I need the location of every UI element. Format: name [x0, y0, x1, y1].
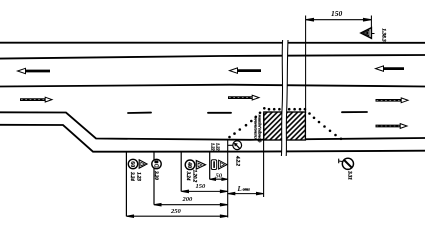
guiding cone dots: left taper [228, 107, 342, 140]
break band (white) [281, 40, 288, 156]
svg-text:150: 150 [331, 9, 343, 18]
svg-text:фонари,щиты: фонари,щиты [257, 115, 262, 143]
lane line upper [0, 55, 425, 59]
svg-text:3.24: 3.24 [129, 171, 134, 181]
dashed lane line in widened section [128, 112, 367, 113]
sign 1.38.3 (triangle, opposite direction) [361, 28, 375, 39]
svg-text:3.24: 3.24 [185, 171, 190, 181]
sign post group B (200 m) [153, 152, 155, 205]
svg-text:200: 200 [182, 196, 194, 203]
traffic arrow right outline B4 [376, 124, 408, 129]
sign post group D (50 m) [209, 152, 211, 180]
svg-text:1.38.3: 1.38.3 [380, 28, 386, 42]
svg-text:1.20.2: 1.20.2 [191, 170, 196, 183]
traffic arrow left solid A1 [18, 68, 51, 73]
hatched road-works closed area [264, 112, 306, 140]
svg-text:1.23: 1.23 [136, 172, 141, 181]
svg-text:4.2.2: 4.2.2 [235, 155, 240, 167]
sign 3.31 end of restrictions [339, 158, 354, 169]
svg-text:40: 40 [186, 162, 192, 168]
dimension 50 [210, 178, 228, 180]
svg-text:L: L [237, 185, 242, 193]
guiding cone dots: right taper [308, 112, 311, 115]
traffic arrow left solid A3 [376, 66, 405, 71]
dimension 150 top: extension line at works end [305, 16, 307, 114]
road top edge line [0, 42, 425, 44]
traffic arrow right outline B1 [20, 97, 52, 102]
guiding cone dots: along works top [268, 108, 271, 111]
main dimension extension vertical at taper start [227, 141, 229, 218]
svg-text:3.31: 3.31 [346, 170, 351, 180]
road bottom edge lower (shoulder, bends down) [0, 125, 425, 152]
extension vertical at works start [263, 113, 265, 197]
sign 1.20.2 triangle group C [196, 161, 205, 170]
traffic arrow right outline B3 [376, 98, 409, 103]
dimension 150 bottom [181, 190, 228, 192]
wavy break line right [286, 40, 288, 156]
svg-text:150: 150 [196, 183, 207, 190]
traffic arrow left solid A2 [230, 68, 262, 73]
sign 1.23 triangle group A [139, 160, 147, 168]
svg-text:3.20: 3.20 [153, 170, 158, 180]
road bottom edge upper (bends down at taper) [0, 112, 425, 140]
sign 4.2.2 (pass obstacle) circle at taper [228, 141, 242, 150]
svg-text:1.22: 1.22 [210, 143, 215, 151]
dimension 150 top: extension line at sign [370, 16, 372, 35]
sign 3.24 (40) group C [185, 160, 195, 170]
sign post group A (250 m): post / extension line [125, 152, 127, 217]
svg-text:60: 60 [129, 161, 135, 167]
svg-text:250: 250 [170, 208, 182, 215]
sign 3.20 (no overtaking) group B [152, 159, 161, 168]
sign post group C (150 m) [180, 152, 182, 192]
sign 1.20 outline triangle group D [219, 160, 227, 169]
wavy break line left [281, 40, 282, 156]
sign 3.24 (60) group A [128, 159, 137, 168]
sign rectangle (lane sign) group D [211, 160, 216, 170]
svg-text:50: 50 [216, 172, 223, 179]
svg-text:отг: отг [243, 187, 251, 192]
center line [0, 85, 425, 87]
svg-text:1.22: 1.22 [215, 143, 220, 151]
traffic arrow right outline B2 [228, 95, 259, 100]
dimension 150 top: line with arrows [306, 18, 372, 21]
dimension 250 [126, 215, 227, 217]
dimension 200 [154, 204, 228, 206]
dimension L otg (taper length) [228, 192, 264, 194]
